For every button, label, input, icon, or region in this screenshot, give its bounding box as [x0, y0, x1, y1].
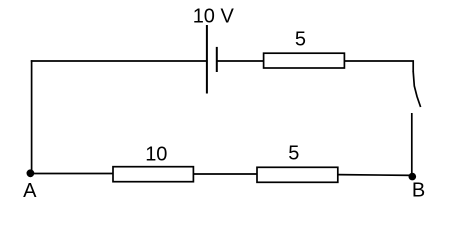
- node B junction dot: [409, 173, 417, 181]
- wire top rail left (corner to battery): [31, 60, 206, 62]
- node label A: [23, 180, 37, 202]
- battery short plate (negative): [216, 47, 218, 72]
- svg-text:5: 5: [295, 29, 306, 51]
- resistor R3 (bottom right, 5 ohm): [257, 167, 338, 182]
- wire resistor R3 to node B: [338, 174, 412, 177]
- value label 5 (bottom right resistor): [288, 143, 299, 165]
- svg-text:B: B: [412, 180, 425, 202]
- resistor R1 (top, 5 ohm): [264, 53, 345, 68]
- wire battery to resistor R1: [217, 60, 264, 62]
- value label 10 V: [193, 5, 235, 27]
- wire left vertical (top-left corner down to node A): [31, 60, 33, 173]
- wire resistor R2 to resistor R3: [193, 173, 257, 175]
- svg-text:10 V: 10 V: [193, 5, 235, 27]
- svg-text:10: 10: [145, 144, 167, 166]
- svg-text:A: A: [23, 180, 37, 202]
- resistor R2 (bottom left, 10 ohm): [113, 167, 193, 182]
- node A junction dot: [27, 169, 35, 177]
- wire switch to node B: [411, 113, 413, 176]
- battery long plate (positive): [206, 25, 208, 94]
- value label 10 (bottom left resistor): [145, 144, 167, 166]
- switch S1 blade (open): [413, 72, 420, 108]
- wire resistor R1 to switch corner: [344, 61, 413, 72]
- wire node A to resistor R2: [30, 173, 113, 175]
- svg-text:5: 5: [288, 143, 299, 165]
- value label 5 (top resistor): [295, 29, 306, 51]
- node label B: [412, 180, 425, 202]
